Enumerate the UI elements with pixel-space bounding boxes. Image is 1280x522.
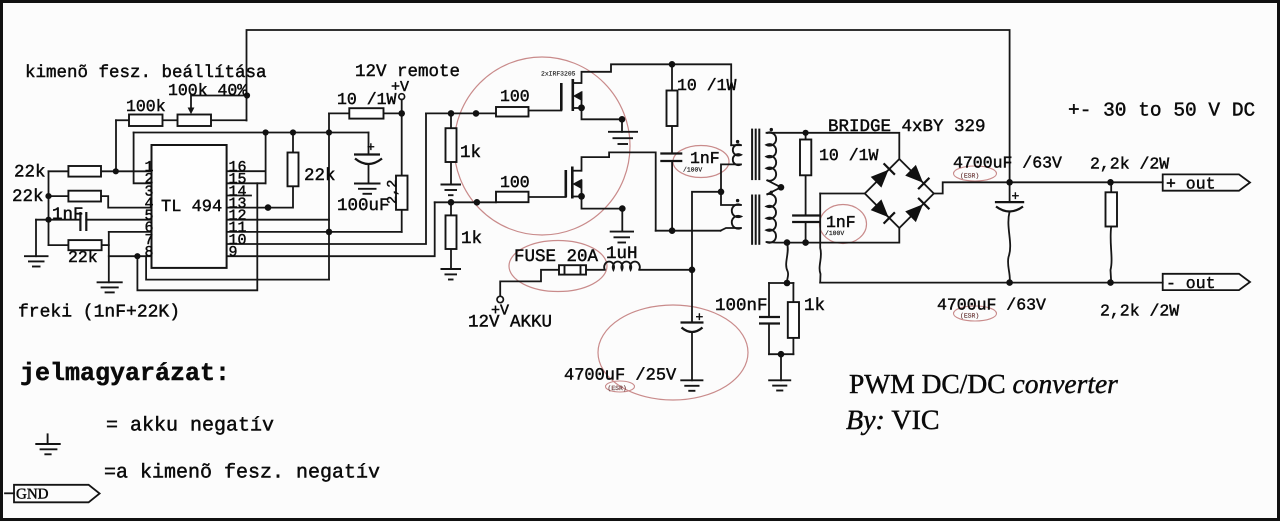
svg-text:GND: GND — [16, 487, 49, 503]
wire pin13 lead — [227, 207, 268, 209]
svg-text:=a kimenõ fesz. negatív: =a kimenõ fesz. negatív — [104, 462, 380, 485]
wire sense gnd lead — [780, 354, 782, 380]
junction secondary mid — [778, 184, 785, 191]
junction 12V feed — [689, 267, 696, 274]
svg-text:+: + — [696, 310, 704, 325]
svg-text:1nF: 1nF — [52, 205, 84, 225]
ground (Q2 source) — [610, 231, 634, 233]
wire Q1 drain path — [582, 64, 732, 145]
svg-text:(ESR): (ESR) — [960, 313, 979, 320]
wire pin16 lead and vertical to bus — [227, 170, 266, 172]
terminal +V (12V akku) — [497, 296, 503, 302]
wire 22k2 to pin4 — [49, 195, 69, 197]
junction drain2 snubber — [669, 227, 676, 234]
wire sense network frame — [769, 282, 793, 284]
svg-text:8: 8 — [144, 244, 153, 261]
wire pin14 lead — [227, 195, 251, 197]
svg-text:FUSE 20A: FUSE 20A — [514, 247, 599, 267]
plus signs — [367, 140, 1020, 325]
svg-text:jelmagyarázat:: jelmagyarázat: — [20, 359, 230, 388]
resistor 100 (upper) — [496, 107, 529, 117]
wire top rail from feedback to +out column — [247, 30, 1010, 182]
svg-text:= akku negatív: = akku negatív — [106, 415, 274, 438]
wire gate2 to Q2 — [529, 196, 566, 198]
wire 22k common left vertical — [48, 171, 50, 245]
junction pin13 pullup — [265, 204, 272, 211]
IC U1 TL494 body — [152, 145, 227, 268]
svg-text:+: + — [1012, 189, 1020, 204]
svg-text:+: + — [367, 140, 375, 155]
inductor 1uH — [604, 262, 640, 270]
wire pin1 feedback vertical — [115, 120, 117, 171]
junction gate2 b — [474, 199, 481, 206]
wire pin1 row — [49, 170, 69, 172]
wire DC minus path — [820, 193, 865, 195]
svg-text:1k: 1k — [461, 229, 482, 249]
junction bus 22k pullup — [290, 129, 296, 135]
svg-text:TL 494: TL 494 — [161, 198, 222, 217]
transformer T1 secondary winding A — [767, 132, 777, 180]
svg-text:10 /1W: 10 /1W — [677, 76, 737, 95]
annotation ellipse 4700uF25 — [598, 305, 748, 400]
capacitor 100uF plates — [354, 153, 380, 155]
svg-text:4700uF /25V: 4700uF /25V — [564, 367, 677, 386]
svg-text:100uF: 100uF — [337, 196, 390, 216]
svg-text:100nF: 100nF — [715, 296, 768, 316]
capacitor 4700uF /25V plates — [681, 321, 704, 323]
ground (sense network) — [768, 379, 791, 381]
wire under-IC wrap pin8 to pin15 — [137, 183, 257, 290]
annotation ellipse 1nF secondary — [820, 205, 867, 244]
node pot wiper junction — [244, 92, 250, 98]
wire snubber R top lead — [671, 64, 673, 90]
fuse FUSE 20A — [559, 265, 586, 274]
svg-text:12V AKKU: 12V AKKU — [468, 313, 552, 333]
wire snubber cap bottom lead — [671, 161, 673, 231]
svg-text:PWM DC/DC converter: PWM DC/DC converter — [849, 368, 1118, 399]
junction 22k left rail a — [45, 193, 51, 199]
wire gate1 net — [426, 112, 496, 114]
transformer phase dots — [736, 140, 739, 143]
junction drain1 snubber — [669, 61, 676, 68]
svg-text:+V: +V — [391, 79, 409, 96]
potentiometer 100k 40% body — [178, 115, 212, 127]
bridge rectifier 4xBY329 diamond — [865, 159, 934, 228]
diode D2 (lower-left) — [872, 200, 895, 223]
annotation ellipse 1nF primary — [673, 146, 729, 178]
wire 12V filter resistor leads — [329, 112, 349, 114]
svg-text:(ESR): (ESR) — [608, 385, 627, 392]
wire pin9 long lead — [227, 202, 435, 256]
transistor Q2 2xIRF3205 (lower mosfet) — [566, 167, 582, 199]
junction pin8 gnd — [134, 253, 140, 259]
svg-text:/100V: /100V — [825, 230, 844, 237]
wire primary w2 bottom link — [721, 228, 742, 231]
svg-text:2,2k /2W: 2,2k /2W — [1100, 302, 1179, 321]
junction pin1 feedback — [113, 168, 119, 174]
capacitor 1nF /100V (primary snubber) plates — [660, 152, 682, 154]
svg-text:1uH: 1uH — [606, 244, 638, 264]
ground (pin6/pin8 node) — [97, 281, 123, 283]
annotation ellipse mosfets — [454, 57, 630, 235]
resistor 22k (pin1) — [68, 166, 101, 177]
ground (Q1 source) — [608, 131, 638, 133]
wire minus rail — [820, 282, 1162, 284]
junction Q1 gnd — [619, 116, 626, 123]
transformer T1 secondary winding B — [767, 194, 777, 243]
wire Q2 source path — [582, 197, 623, 232]
junction bus pin16 — [263, 129, 269, 135]
terminal +V (12V remote) — [399, 94, 405, 100]
svg-text:1k: 1k — [804, 296, 825, 316]
wire gnd stub left — [35, 220, 37, 257]
svg-text:100k: 100k — [126, 97, 166, 116]
capacitor 100nF plates — [759, 316, 780, 318]
tag + out — [1163, 174, 1250, 190]
tag GND — [14, 485, 100, 503]
wire gate2 net — [435, 201, 496, 203]
resistor 10 /1W (secondary snubber) — [800, 140, 811, 176]
junction pin11 supply — [326, 229, 333, 236]
wire 100k row — [116, 119, 129, 121]
wire fuse to inductor — [586, 269, 605, 271]
svg-text:2xIRF3205: 2xIRF3205 — [541, 71, 576, 78]
ground (pin5 node) — [24, 255, 49, 257]
resistor R 100k — [129, 115, 163, 127]
svg-text:100: 100 — [500, 173, 530, 192]
junction gate1 1k — [448, 110, 455, 117]
junction +rail 2k2 — [1107, 179, 1114, 186]
wire Q2 drain path — [582, 152, 656, 230]
diode D4 (lower-right) — [906, 198, 929, 221]
resistor 1k (upper gate) — [446, 128, 457, 162]
wire snubber R to cap — [671, 126, 673, 154]
annotation ellipse fuse — [509, 241, 607, 292]
junction AC top 10R — [803, 130, 809, 136]
svg-text:+ out: + out — [1166, 175, 1216, 194]
wire +V terminal drop — [401, 99, 403, 175]
wire primary w1 bottom link — [721, 164, 741, 205]
resistor 1k (sense) — [788, 302, 799, 338]
wire pin6/gnd vertical — [108, 232, 110, 282]
wire 100uF top lead — [368, 133, 370, 155]
resistor 22k (pin4) — [68, 191, 101, 202]
wire 1nF node to pin5 — [36, 219, 80, 221]
svg-text:10 /1W: 10 /1W — [819, 146, 879, 165]
wire 100uF bottom lead — [368, 164, 370, 184]
svg-text:- out: - out — [1166, 274, 1216, 293]
wire 22k right resistor verticals — [292, 133, 294, 153]
svg-text:4700uF /63V: 4700uF /63V — [937, 296, 1046, 315]
junction Q1 source — [578, 104, 585, 111]
ground (100uF) — [354, 183, 381, 185]
ground (legend symbol) — [47, 433, 49, 444]
svg-text:BRIDGE 4xBY 329: BRIDGE 4xBY 329 — [828, 117, 986, 137]
svg-text:4700uF /63V: 4700uF /63V — [953, 154, 1062, 173]
junction 22k left rail b — [45, 217, 51, 223]
diode D3 (upper-right) — [906, 166, 929, 189]
tag - out — [1163, 274, 1250, 290]
junction AC bottom 1nF — [802, 239, 809, 246]
wire GND tag lead — [5, 492, 14, 494]
wire 1k1 leads — [450, 113, 452, 128]
annotation ellipse ESR top — [954, 166, 997, 181]
svg-text:22k: 22k — [12, 187, 44, 207]
resistor 10 /1W (12V filter) — [349, 108, 383, 118]
diode D1 (upper-left) — [872, 163, 895, 186]
wire 4700uF63 top lead — [1009, 182, 1011, 202]
pin numbers right 16-9 — [229, 159, 247, 261]
capacitor 1nF (pin5) plates — [79, 212, 81, 231]
svg-text:(ESR): (ESR) — [960, 173, 979, 180]
wire under-IC wrap to supply — [146, 256, 329, 279]
wire pot wiper — [191, 96, 247, 109]
wire mid horizontal bus y132.5 — [134, 132, 369, 134]
wire 4700uF25 top lead — [691, 270, 693, 323]
wire center tap vertical — [692, 192, 721, 270]
resistor 2,2k /2W (top) — [1106, 192, 1118, 226]
capacitor 4700uF /63V (top) plates — [995, 201, 1024, 203]
wire 22k3 row — [49, 244, 69, 246]
wire pin12 lead — [227, 219, 329, 221]
ground (1k lower) — [441, 268, 462, 270]
junction AC bottom sense — [784, 239, 791, 246]
wire 4700uF25 bottom lead — [691, 332, 693, 380]
wire pin8 row — [109, 255, 152, 257]
resistor 100 (lower) — [496, 192, 529, 203]
wire 1k2 leads — [450, 202, 452, 215]
junction primary center tap — [718, 189, 725, 196]
svg-text:+- 30 to 50 V DC: +- 30 to 50 V DC — [1068, 100, 1255, 122]
resistor 22k (pin13 pullup) — [288, 153, 299, 187]
wire supply vertical x329 — [328, 113, 330, 279]
wire secondary top to bridge — [767, 133, 900, 159]
wire sense net drop (wavy) — [786, 243, 788, 283]
wire Q1 source path — [582, 108, 623, 132]
svg-text:100: 100 — [500, 87, 530, 106]
wire bridge R top lead — [805, 133, 807, 140]
wire 2.2k leads — [1110, 182, 1112, 192]
junction -rail cap — [1006, 279, 1013, 286]
wire pin15 lead — [227, 182, 266, 184]
junction bus supply — [326, 129, 332, 135]
junction gate1 b — [473, 110, 480, 117]
svg-text:100k 40%: 100k 40% — [168, 81, 247, 100]
resistor 22k (freki) — [68, 240, 101, 250]
junction -rail 2k2 — [1107, 279, 1114, 286]
wire bridge R to cap2 — [805, 175, 807, 215]
svg-text:22k: 22k — [304, 166, 336, 186]
annotation ellipse ESR bottom — [954, 306, 997, 321]
svg-text:1k: 1k — [460, 143, 481, 163]
annotation ellipse ESR mid — [606, 381, 635, 392]
svg-text:/100V: /100V — [683, 167, 702, 174]
junction +rail cap — [1006, 179, 1013, 186]
svg-text:freki (1nF+22K): freki (1nF+22K) — [18, 303, 180, 323]
svg-text:22k: 22k — [68, 248, 98, 267]
wire pin2 — [134, 133, 152, 184]
svg-text:1nF: 1nF — [690, 149, 720, 168]
wire primary w1 top link — [731, 144, 741, 146]
junction sense bottom — [778, 351, 785, 358]
wire 12V akku feed — [500, 270, 559, 297]
svg-text:10 /1W: 10 /1W — [337, 90, 397, 109]
transformer T1 secondary link — [767, 180, 782, 195]
potentiometer wiper arrow — [188, 108, 195, 115]
transistor Q1 2xIRF3205 (upper mosfet) — [561, 79, 582, 111]
wire secondary bottom to bridge — [767, 228, 900, 243]
wire 4700uF63 bottom lead (wavy) — [1008, 212, 1010, 283]
wire cap2 bottom lead — [805, 222, 807, 243]
wire pin6 row — [109, 231, 152, 233]
wire pin10 long lead — [227, 113, 426, 244]
junction Q2 source — [578, 193, 585, 200]
wire pin11 lead to 2R2 — [227, 231, 402, 233]
wire drain2 bottom row to winding2 — [656, 230, 721, 232]
transformer T1 primary winding 2 — [732, 204, 741, 228]
svg-text:2,2k /2W: 2,2k /2W — [1090, 155, 1169, 174]
transformer T1 core — [752, 129, 759, 245]
pin numbers left 1-8 — [144, 159, 153, 261]
junction gate2 1k — [448, 199, 455, 206]
ground (1k upper) — [441, 184, 462, 186]
junction Q2 gnd — [619, 205, 626, 212]
wire inductor to center tap node — [639, 269, 692, 271]
svg-text:2,2: 2,2 — [386, 180, 401, 204]
transformer T1 primary winding 1 — [733, 145, 741, 166]
wire plus rail — [934, 182, 1163, 193]
ground (4700uF25) — [680, 379, 703, 381]
junction +V 12V node — [398, 110, 405, 117]
svg-text:9: 9 — [229, 244, 238, 261]
svg-text:kimenõ fesz. beállítása: kimenõ fesz. beállítása — [25, 63, 267, 83]
resistor 10 /1W (snubber) — [667, 91, 678, 127]
junction sense top — [784, 280, 791, 287]
svg-text:By: VIC: By: VIC — [846, 405, 940, 436]
svg-text:22k: 22k — [14, 163, 46, 183]
wire gate1 to Q1 — [529, 110, 562, 112]
resistor 1k (lower gate) — [446, 215, 457, 249]
resistor 2,2 ohm — [396, 176, 408, 210]
capacitor 1nF /100V (secondary) plates — [792, 214, 819, 216]
